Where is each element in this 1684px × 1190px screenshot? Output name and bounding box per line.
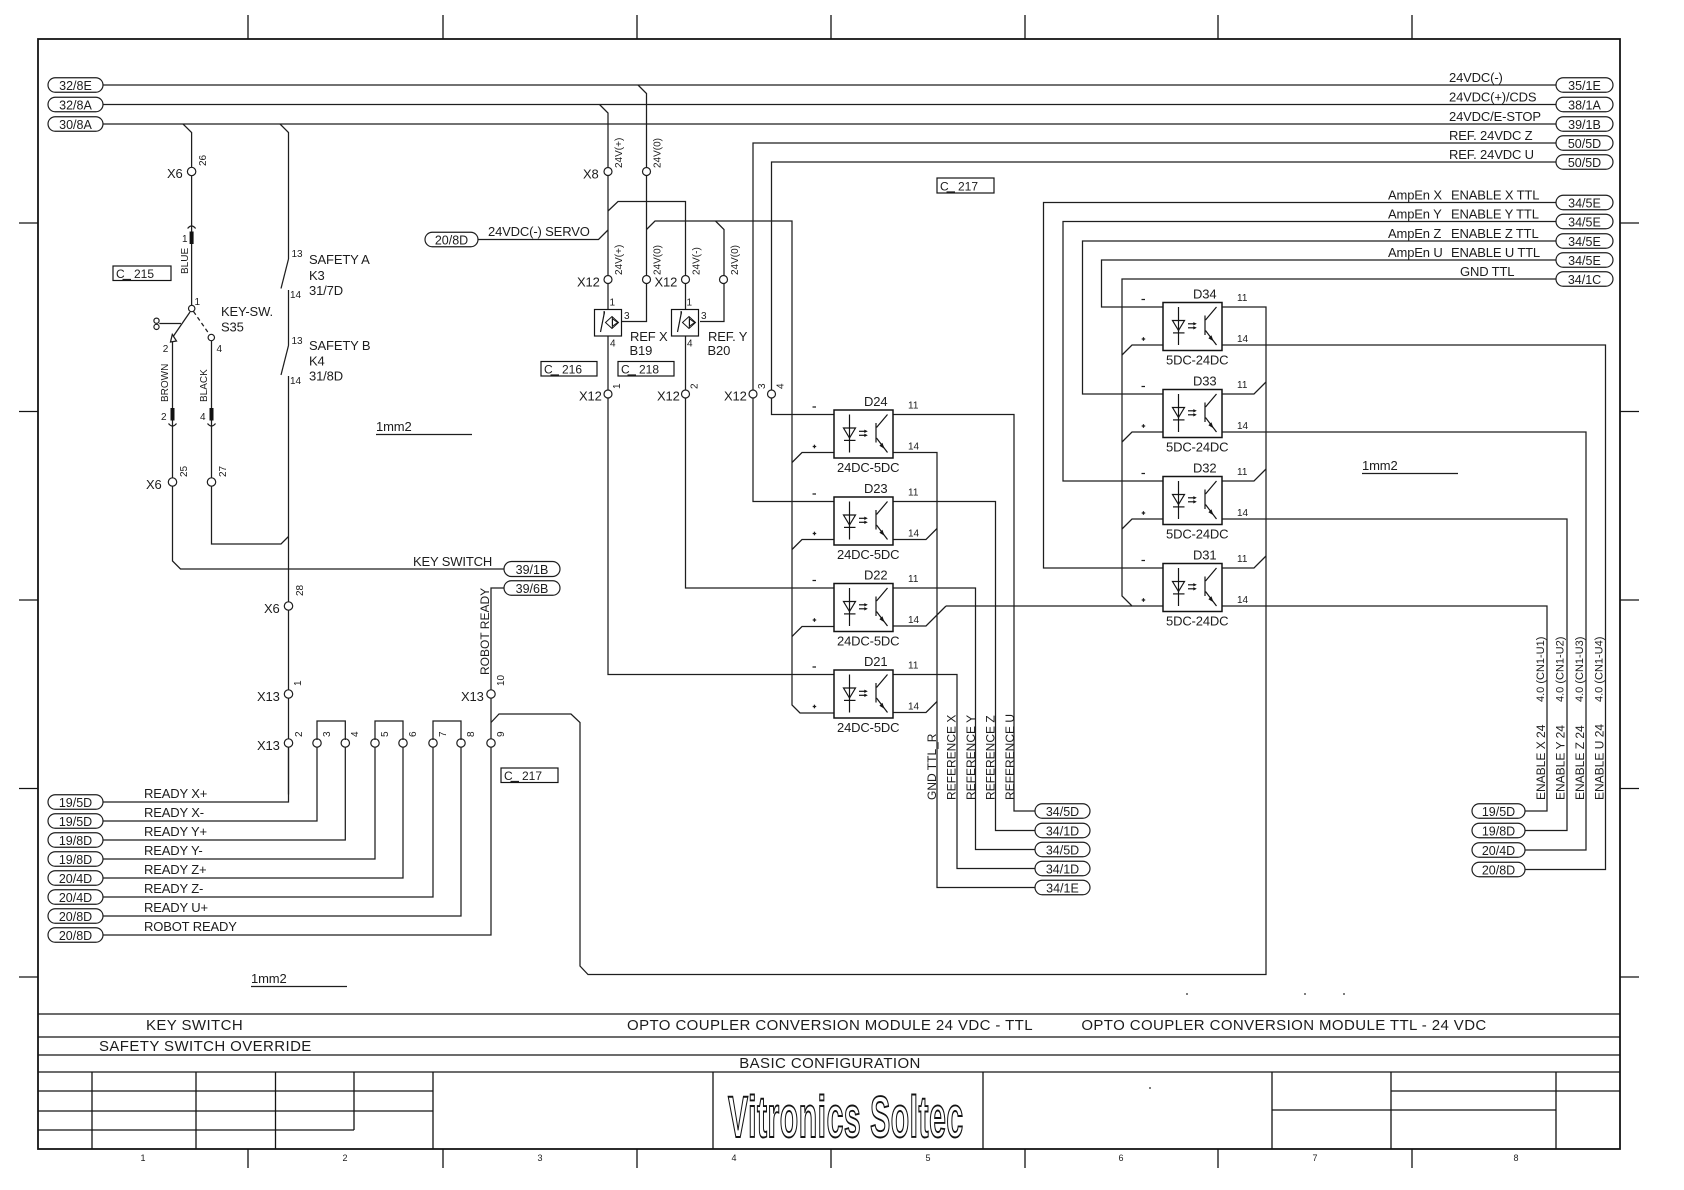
- connector X6 pin 25: [168, 478, 176, 486]
- svg-text:5DC-24DC: 5DC-24DC: [1166, 527, 1228, 542]
- svg-text:BASIC CONFIGURATION: BASIC CONFIGURATION: [739, 1055, 921, 1072]
- svg-text:19/8D: 19/8D: [1482, 825, 1515, 839]
- wire BLACK return join: [212, 486, 289, 544]
- connector X12 pin row 1: [604, 276, 728, 284]
- svg-text:SAFETY B: SAFETY B: [309, 338, 370, 353]
- svg-text:34/1E: 34/1E: [1046, 882, 1079, 896]
- svg-text:14: 14: [908, 529, 920, 540]
- net link 19/5D enable x: [1472, 804, 1525, 819]
- svg-text:34/5E: 34/5E: [1568, 254, 1601, 268]
- svg-text:KEY SWITCH: KEY SWITCH: [413, 554, 492, 569]
- svg-text:20/8D: 20/8D: [1482, 864, 1515, 878]
- net link 32/8E: [48, 78, 103, 93]
- wire KEY SWITCH net to 39/1B: [173, 486, 505, 569]
- svg-text:D24: D24: [864, 394, 887, 409]
- svg-text:X12: X12: [657, 389, 680, 404]
- svg-text:X13: X13: [257, 689, 280, 704]
- svg-text:216: 216: [562, 363, 582, 377]
- net link 35/1E: [1556, 78, 1613, 93]
- connector X12 pin row 2: [604, 390, 776, 398]
- wire net 24VDC(-) 32/8E: [103, 85, 1556, 172]
- svg-text:24VDC/E-STOP: 24VDC/E-STOP: [1449, 109, 1541, 124]
- svg-text:7: 7: [438, 731, 449, 737]
- svg-text:BLUE: BLUE: [180, 248, 191, 274]
- wire D31 pin11 join: [1222, 556, 1266, 568]
- svg-text:24V(+): 24V(+): [614, 138, 625, 168]
- wire net REF. 24VDC U: [772, 162, 1557, 394]
- svg-text:34/5E: 34/5E: [1568, 197, 1601, 211]
- wire D32 pin14 ENABLE Y 24: [1222, 519, 1567, 831]
- wire READY Z-: [103, 747, 433, 897]
- net link 20/4D ready z-: [48, 890, 103, 905]
- wire D21 pin11 to REFERENCE X: [893, 675, 1035, 869]
- svg-text:X6: X6: [146, 477, 162, 492]
- optocoupler D22: [813, 568, 920, 649]
- net link 34/5D ref u: [1035, 804, 1090, 819]
- svg-text:30/8A: 30/8A: [59, 118, 92, 132]
- connector X6 pin 28: [284, 602, 292, 610]
- ferrule 1 on BLUE wire: [188, 226, 196, 244]
- svg-text:20/8D: 20/8D: [435, 234, 468, 248]
- net link 34/5D ref y: [1035, 842, 1090, 857]
- wire net REF. 24VDC Z: [753, 143, 1556, 394]
- net link 34/1D ref z: [1035, 823, 1090, 838]
- svg-text:AmpEn Y: AmpEn Y: [1388, 207, 1442, 222]
- svg-text:20/8D: 20/8D: [59, 929, 92, 943]
- svg-text:24DC-5DC: 24DC-5DC: [837, 460, 899, 475]
- wire BLACK X6.27: [211, 341, 213, 483]
- svg-text:BROWN: BROWN: [160, 364, 171, 402]
- title block: [38, 1014, 1620, 1149]
- svg-text:32/8A: 32/8A: [59, 99, 92, 113]
- optocoupler D32: [1142, 461, 1249, 542]
- svg-text:REFERENCE Y: REFERENCE Y: [964, 715, 978, 800]
- svg-text:2: 2: [294, 731, 305, 737]
- svg-text:4: 4: [731, 1153, 736, 1163]
- svg-text:13: 13: [292, 249, 304, 260]
- svg-text:9: 9: [496, 731, 507, 737]
- svg-text:34/5D: 34/5D: [1046, 844, 1079, 858]
- wire D34 pin14 ENABLE U 24: [1222, 345, 1606, 870]
- svg-text:11: 11: [1237, 293, 1248, 304]
- svg-text:38/1A: 38/1A: [1568, 99, 1601, 113]
- svg-text:24V(0): 24V(0): [653, 138, 664, 168]
- wire READY U+: [103, 747, 461, 916]
- wire branch 24V(+) to X12.3: [608, 202, 686, 310]
- svg-text:K4: K4: [309, 354, 325, 369]
- wire B19.4 to X12r2.1 to D21 minus: [608, 336, 834, 675]
- net link 20/8D enable u: [1472, 862, 1525, 877]
- svg-text:5: 5: [380, 731, 391, 737]
- label 1mm2 right: [1362, 458, 1458, 474]
- svg-text:24V(0): 24V(0): [730, 245, 741, 275]
- svg-text:217: 217: [958, 180, 978, 194]
- svg-text:REF X: REF X: [630, 329, 668, 344]
- svg-text:2: 2: [342, 1153, 347, 1163]
- net link 20/8D ready u+: [48, 909, 103, 924]
- net link 19/8D ready y-: [48, 852, 103, 867]
- svg-text:8: 8: [466, 731, 477, 737]
- svg-text:14: 14: [290, 376, 302, 387]
- svg-text:14: 14: [908, 702, 920, 713]
- net link 20/8D servo: [425, 232, 478, 247]
- svg-text:27: 27: [218, 465, 229, 477]
- svg-text:20/4D: 20/4D: [1482, 844, 1515, 858]
- wire D24 pin11 to REFERENCE U: [893, 415, 1035, 812]
- svg-text:1: 1: [195, 297, 201, 308]
- svg-text:READY Z-: READY Z-: [144, 881, 203, 896]
- contact K3 SAFETY A blade: [281, 259, 289, 289]
- svg-text:11: 11: [1237, 380, 1248, 391]
- sensor B19 REF X: [595, 310, 622, 337]
- svg-text:11: 11: [908, 401, 919, 412]
- svg-text:35/1E: 35/1E: [1568, 79, 1601, 93]
- svg-text:X6: X6: [167, 166, 183, 181]
- svg-text:24DC-5DC: 24DC-5DC: [837, 720, 899, 735]
- svg-text:11: 11: [1237, 554, 1248, 565]
- svg-text:X6: X6: [264, 601, 280, 616]
- svg-text:11: 11: [908, 661, 919, 672]
- svg-text:19/5D: 19/5D: [1482, 805, 1515, 819]
- interruption point C_217 top: [937, 178, 994, 194]
- svg-text:4: 4: [776, 383, 787, 389]
- wire D24 pin14 GND TTL_R bus: [893, 453, 1035, 888]
- svg-text:26: 26: [198, 154, 209, 166]
- svg-text:31/7D: 31/7D: [309, 283, 343, 298]
- svg-text:B20: B20: [708, 343, 731, 358]
- svg-text:D21: D21: [864, 654, 887, 669]
- svg-text:X8: X8: [583, 167, 599, 182]
- wire net 24VDC(-) SERVO: [478, 230, 608, 240]
- net link 39/6B robot ready: [504, 581, 560, 596]
- svg-text:50/5D: 50/5D: [1568, 137, 1601, 151]
- svg-text:34/1D: 34/1D: [1046, 825, 1079, 839]
- svg-text:39/1B: 39/1B: [516, 563, 549, 577]
- svg-text:X12: X12: [655, 275, 678, 290]
- wire BROWN X6.25: [172, 342, 174, 482]
- net link 39/1B key switch: [504, 562, 560, 578]
- svg-text:READY Y+: READY Y+: [144, 824, 207, 839]
- svg-text:14: 14: [908, 442, 920, 453]
- svg-text:ENABLE U TTL: ENABLE U TTL: [1451, 245, 1540, 260]
- svg-text:ROBOT READY: ROBOT READY: [144, 919, 237, 934]
- svg-text:7: 7: [1312, 1153, 1317, 1163]
- interruption point C_215: [113, 266, 171, 281]
- svg-text:OPTO COUPLER CONVERSION MODULE: OPTO COUPLER CONVERSION MODULE 24 VDC - …: [627, 1017, 1033, 1034]
- svg-text:24V(+): 24V(+): [614, 245, 625, 275]
- svg-text:215: 215: [134, 267, 154, 281]
- wire 24V(0) branch bus to D2x plus: [647, 221, 835, 713]
- wire READY Y+: [103, 747, 345, 840]
- net link 34/1E gnd: [1035, 880, 1090, 895]
- net link 30/8A: [48, 117, 103, 132]
- svg-text:1: 1: [140, 1153, 145, 1163]
- svg-text:10: 10: [496, 674, 507, 686]
- svg-text:14: 14: [1237, 421, 1249, 432]
- net link 34/5E y: [1556, 214, 1613, 229]
- net link 34/5E z: [1556, 234, 1613, 249]
- wire net 24VDC(+)/CDS 32/8A: [103, 105, 1556, 172]
- svg-text:REF. 24VDC U: REF. 24VDC U: [1449, 147, 1534, 162]
- svg-text:13: 13: [292, 336, 304, 347]
- net link 50/5D z: [1556, 136, 1613, 151]
- svg-text:ENABLE X TTL: ENABLE X TTL: [1451, 188, 1539, 203]
- svg-text:ENABLE Z 24: ENABLE Z 24: [1573, 725, 1587, 800]
- svg-text:X13: X13: [257, 738, 280, 753]
- svg-text:24DC-5DC: 24DC-5DC: [837, 547, 899, 562]
- svg-text:20/4D: 20/4D: [59, 891, 92, 905]
- stray dots: [1149, 1087, 1151, 1089]
- svg-text:2: 2: [163, 344, 169, 355]
- svg-text:4: 4: [200, 412, 206, 423]
- svg-text:READY X-: READY X-: [144, 805, 204, 820]
- svg-text:Vitronics Soltec: Vitronics Soltec: [728, 1084, 964, 1149]
- svg-text:11: 11: [908, 488, 919, 499]
- svg-text:1: 1: [182, 234, 188, 245]
- svg-text:24V(0): 24V(0): [653, 245, 664, 275]
- svg-text:REF. Y: REF. Y: [708, 329, 748, 344]
- connector X6 pin 26: [187, 167, 195, 175]
- svg-text:S35: S35: [221, 320, 244, 335]
- net link 39/1B: [1556, 117, 1613, 132]
- wire D34 pin11 common to ROBOT READY: [491, 307, 1266, 975]
- sensor B20 REF Y: [672, 310, 699, 337]
- svg-text:1mm2: 1mm2: [251, 971, 287, 986]
- svg-text:ENABLE U 24: ENABLE U 24: [1593, 724, 1607, 800]
- svg-text:19/5D: 19/5D: [59, 796, 92, 810]
- wire READY Y-: [103, 747, 375, 859]
- svg-text:19/8D: 19/8D: [59, 853, 92, 867]
- svg-text:REF. 24VDC Z: REF. 24VDC Z: [1449, 128, 1533, 143]
- connector X8 pin 2: [643, 168, 651, 176]
- svg-text:4.0 (CN1-U1): 4.0 (CN1-U1): [1535, 637, 1547, 702]
- svg-text:4: 4: [350, 731, 361, 737]
- ferrule 2 on BROWN wire: [169, 408, 177, 426]
- svg-text:ENABLE Y TTL: ENABLE Y TTL: [1451, 207, 1539, 222]
- svg-text:5DC-24DC: 5DC-24DC: [1166, 614, 1228, 629]
- label 1mm2 safety area: [376, 419, 472, 435]
- svg-text:READY Y-: READY Y-: [144, 843, 203, 858]
- jumper bridge X13 5-6: [375, 721, 403, 740]
- wire ROBOT READY to 39/6B: [491, 588, 504, 739]
- svg-text:34/1D: 34/1D: [1046, 863, 1079, 877]
- svg-text:X13: X13: [461, 689, 484, 704]
- wire X6.26 to key switch: [191, 172, 193, 306]
- wire net ENABLE Z TTL: [1083, 241, 1557, 394]
- connector X13 pin 1: [284, 690, 292, 698]
- svg-text:4: 4: [217, 344, 223, 355]
- svg-text:11: 11: [908, 574, 919, 585]
- net link 19/5D ready x-: [48, 814, 103, 829]
- svg-text:14: 14: [1237, 508, 1249, 519]
- svg-text:READY X+: READY X+: [144, 786, 207, 801]
- optocoupler D31: [1142, 548, 1249, 629]
- svg-text:14: 14: [908, 615, 920, 626]
- label 1mm2 bottom: [251, 971, 347, 987]
- svg-text:BLACK: BLACK: [199, 369, 210, 402]
- svg-text:3: 3: [537, 1153, 542, 1163]
- wire D32 pin11 join: [1222, 469, 1266, 481]
- svg-text:X12: X12: [724, 389, 747, 404]
- svg-text:4.0 (CN1-U2): 4.0 (CN1-U2): [1555, 637, 1567, 702]
- svg-text:34/5D: 34/5D: [1046, 805, 1079, 819]
- svg-text:D34: D34: [1193, 287, 1216, 302]
- svg-text:1: 1: [293, 680, 304, 686]
- optocoupler D23: [813, 481, 920, 562]
- net link 19/5D ready x+: [48, 795, 103, 810]
- svg-text:GND TTL: GND TTL: [1460, 264, 1514, 279]
- svg-text:24VDC(+)/CDS: 24VDC(+)/CDS: [1449, 90, 1537, 105]
- svg-text:19/8D: 19/8D: [59, 834, 92, 848]
- net link 19/8D ready y+: [48, 833, 103, 848]
- net link 34/1C: [1556, 272, 1613, 287]
- svg-text:K3: K3: [309, 268, 325, 283]
- svg-text:2: 2: [161, 412, 167, 423]
- svg-text:3: 3: [757, 383, 768, 389]
- svg-text:ROBOT READY: ROBOT READY: [478, 588, 492, 675]
- svg-text:B19: B19: [630, 343, 653, 358]
- svg-text:D32: D32: [1193, 461, 1216, 476]
- svg-text:4.0 (CN1-U3): 4.0 (CN1-U3): [1574, 637, 1586, 702]
- svg-text:5: 5: [925, 1153, 930, 1163]
- wire safety chain vertical: [288, 290, 290, 795]
- svg-text:KEY-SW.: KEY-SW.: [221, 304, 273, 319]
- net link 34/5E u: [1556, 253, 1613, 268]
- svg-text:1mm2: 1mm2: [1362, 458, 1398, 473]
- svg-text:4: 4: [610, 339, 616, 350]
- svg-text:14: 14: [1237, 595, 1249, 606]
- svg-text:3: 3: [701, 311, 707, 322]
- svg-text:4.0 (CN1-U4): 4.0 (CN1-U4): [1594, 637, 1606, 702]
- svg-text:READY U+: READY U+: [144, 900, 208, 915]
- wire D33 pin11 join: [1222, 382, 1266, 394]
- svg-text:14: 14: [1237, 334, 1249, 345]
- svg-text:D31: D31: [1193, 548, 1216, 563]
- svg-text:ENABLE X 24: ENABLE X 24: [1534, 724, 1548, 800]
- svg-text:1: 1: [610, 298, 616, 309]
- net link 20/4D ready z+: [48, 871, 103, 886]
- optocoupler D33: [1142, 374, 1249, 455]
- svg-text:24V(-): 24V(-): [692, 247, 703, 275]
- svg-text:REFERENCE Z: REFERENCE Z: [984, 715, 998, 800]
- svg-text:34/5E: 34/5E: [1568, 216, 1601, 230]
- svg-text:31/8D: 31/8D: [309, 369, 343, 384]
- key switch S35: [154, 305, 215, 342]
- wire D23 pin11 to REFERENCE Z: [893, 502, 1035, 831]
- connector X13 pin 10: [487, 690, 495, 698]
- svg-text:1: 1: [612, 383, 623, 389]
- net link 32/8A: [48, 97, 103, 112]
- svg-text:39/6B: 39/6B: [516, 582, 549, 596]
- wire X12r2.4 to D24 minus: [772, 394, 835, 415]
- svg-text:3: 3: [322, 731, 333, 737]
- svg-text:D22: D22: [864, 568, 887, 583]
- svg-text:2: 2: [690, 383, 701, 389]
- svg-text:X12: X12: [577, 275, 600, 290]
- wire X12r2.3 to D23 minus: [753, 394, 834, 502]
- svg-text:REFERENCE U: REFERENCE U: [1003, 714, 1017, 800]
- wire READY Z+: [103, 747, 403, 878]
- svg-text:39/1B: 39/1B: [1568, 118, 1601, 132]
- wire B20.4 to X12r2.2 to D22 minus: [686, 336, 835, 588]
- svg-text:34/5E: 34/5E: [1568, 235, 1601, 249]
- svg-text:1: 1: [687, 298, 693, 309]
- ferrule 4 on BLACK wire: [208, 408, 216, 426]
- wire D21 pin14 join: [893, 702, 937, 713]
- svg-text:24VDC(-) SERVO: 24VDC(-) SERVO: [488, 224, 590, 239]
- connector X8 pin 1: [604, 168, 612, 176]
- wire net ENABLE X TTL: [1044, 203, 1557, 569]
- svg-text:34/1C: 34/1C: [1568, 273, 1601, 287]
- jumper bridge X13 3-4: [317, 721, 345, 740]
- net link 19/8D enable y: [1472, 823, 1525, 838]
- svg-text:X12: X12: [579, 389, 602, 404]
- net link 20/8D robot ready: [48, 928, 103, 943]
- net link 20/4D enable z: [1472, 843, 1525, 858]
- svg-text:ENABLE Y 24: ENABLE Y 24: [1554, 725, 1568, 800]
- svg-text:24VDC(-): 24VDC(-): [1449, 70, 1503, 85]
- svg-text:5DC-24DC: 5DC-24DC: [1166, 353, 1228, 368]
- svg-text:8: 8: [1513, 1153, 1518, 1163]
- svg-text:50/5D: 50/5D: [1568, 156, 1601, 170]
- logo Vitronics Soltec: [728, 1084, 964, 1149]
- wire READY X+: [103, 747, 289, 802]
- wire READY X-: [103, 747, 317, 821]
- svg-text:D33: D33: [1193, 374, 1216, 389]
- svg-text:GND TTL_R: GND TTL_R: [925, 733, 939, 800]
- interruption point C_218: [618, 362, 674, 377]
- optocoupler D21: [813, 654, 920, 735]
- svg-text:11: 11: [1237, 467, 1248, 478]
- svg-text:REFERENCE X: REFERENCE X: [945, 715, 959, 800]
- svg-text:32/8E: 32/8E: [59, 79, 92, 93]
- svg-text:19/5D: 19/5D: [59, 815, 92, 829]
- wire net ENABLE Y TTL: [1063, 222, 1556, 482]
- svg-text:6: 6: [408, 731, 419, 737]
- optocoupler D24: [813, 394, 920, 475]
- wire ROBOT READY bottom: [103, 747, 491, 935]
- svg-text:AmpEn X: AmpEn X: [1388, 188, 1442, 203]
- interruption point C_216: [541, 362, 597, 377]
- svg-text:218: 218: [639, 363, 659, 377]
- svg-text:KEY SWITCH: KEY SWITCH: [146, 1017, 243, 1034]
- svg-text:SAFETY SWITCH OVERRIDE: SAFETY SWITCH OVERRIDE: [99, 1038, 312, 1055]
- net link 38/1A: [1556, 97, 1613, 112]
- wire D31 pin14 ENABLE X 24: [1222, 606, 1547, 811]
- svg-text:25: 25: [179, 465, 190, 477]
- wire D22 pin14 join: [893, 606, 946, 626]
- svg-text:ENABLE Z TTL: ENABLE Z TTL: [1451, 226, 1539, 241]
- optocoupler D34: [1142, 287, 1249, 368]
- svg-text:D23: D23: [864, 481, 887, 496]
- svg-text:AmpEn Z: AmpEn Z: [1388, 226, 1441, 241]
- svg-text:3: 3: [624, 311, 630, 322]
- wire D23 pin14 join: [893, 529, 937, 540]
- connector X6 pin 27: [207, 478, 215, 486]
- wire X8.1 to X12.1 to B19.1: [607, 172, 609, 310]
- svg-text:20/8D: 20/8D: [59, 910, 92, 924]
- net link 34/1D ref x: [1035, 861, 1090, 876]
- svg-text:20/4D: 20/4D: [59, 872, 92, 886]
- wire net 24VDC/E-STOP 30/8A: [103, 124, 1556, 259]
- interruption point C_217 bottom: [501, 768, 558, 783]
- svg-text:24DC-5DC: 24DC-5DC: [837, 634, 899, 649]
- svg-text:SAFETY A: SAFETY A: [309, 252, 370, 267]
- svg-text:6: 6: [1118, 1153, 1123, 1163]
- svg-text:1mm2: 1mm2: [376, 419, 412, 434]
- wire D22 pin11 to REFERENCE Y: [893, 588, 1035, 850]
- svg-text:217: 217: [522, 769, 542, 783]
